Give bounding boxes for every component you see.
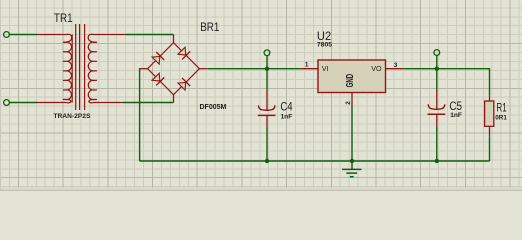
transformer TR1 — [37, 24, 126, 110]
output terminal above C5 — [434, 50, 440, 56]
junction C5/ground rail — [435, 159, 439, 163]
diode D4 (BR1 bottom-right edge, AC to plus) — [174, 69, 200, 95]
wire C5 node to C5 top — [436, 69, 438, 89]
wire TR1 secondary top to BR1 top corner — [126, 34, 174, 36]
svg-text:VI: VI — [322, 64, 329, 73]
svg-text:C4: C4 — [280, 99, 293, 113]
wire from bottom input terminal to TR1 primary — [10, 102, 37, 104]
wire terminal stub to C5 node — [436, 56, 438, 69]
junction C4/VI rail — [265, 67, 269, 71]
wire C4 bottom to ground rail — [266, 128, 268, 162]
wire down to R1 — [489, 68, 491, 95]
svg-text:2: 2 — [345, 101, 352, 105]
wire TR1 secondary bottom to BR1 bottom corner — [123, 102, 174, 104]
regulator U2 7805 — [300, 60, 403, 106]
wire C5 bottom to ground rail — [436, 127, 438, 161]
svg-text:VO: VO — [371, 64, 382, 73]
svg-text:0R1: 0R1 — [495, 114, 507, 121]
wire terminal stub to C4 node — [266, 56, 268, 69]
wire U2 VO output rail — [403, 68, 489, 70]
wire bottom ground rail — [140, 160, 490, 162]
svg-text:1: 1 — [305, 61, 309, 68]
diode D1 (BR1 left-top edge, minus to AC) — [148, 43, 174, 69]
junction C5/VO rail — [435, 67, 439, 71]
wire U2 GND pin to ground rail — [351, 106, 353, 162]
resistor R1 — [485, 95, 494, 136]
svg-text:3: 3 — [394, 62, 398, 69]
wire BR1 minus corner down left rail — [139, 68, 141, 161]
wire R1 bottom to ground rail — [489, 136, 491, 161]
svg-text:BR1: BR1 — [200, 20, 219, 34]
svg-text:1nF: 1nF — [450, 112, 462, 119]
wire BR1 plus output to U2 VI — [208, 68, 300, 70]
input terminal (bottom) — [4, 100, 10, 106]
svg-text:7805: 7805 — [317, 42, 332, 49]
ground symbol — [342, 161, 362, 177]
junction C4/ground rail — [265, 159, 269, 163]
junction U2 GND/ground rail — [350, 159, 354, 163]
wire from top input terminal to TR1 primary — [10, 34, 37, 36]
svg-text:DF005M: DF005M — [200, 104, 227, 111]
capacitor C5 — [428, 89, 446, 127]
svg-text:1nF: 1nF — [281, 114, 293, 121]
input terminal (top) — [4, 32, 10, 38]
diode D2 (BR1 top-right edge, AC to plus) — [174, 43, 200, 69]
svg-text:R1: R1 — [496, 102, 506, 114]
capacitor C4 — [258, 89, 276, 128]
svg-text:TR1: TR1 — [54, 11, 73, 25]
diode D3 (BR1 left-bottom edge, minus to AC) — [148, 69, 174, 95]
svg-text:TRAN-2P2S: TRAN-2P2S — [54, 113, 92, 120]
wire C4 node to C4 top — [266, 69, 268, 89]
svg-text:GND: GND — [345, 74, 356, 88]
bridge rectifier BR1 — [140, 20, 508, 177]
svg-text:C5: C5 — [449, 99, 462, 113]
output terminal above C4 — [264, 50, 270, 56]
